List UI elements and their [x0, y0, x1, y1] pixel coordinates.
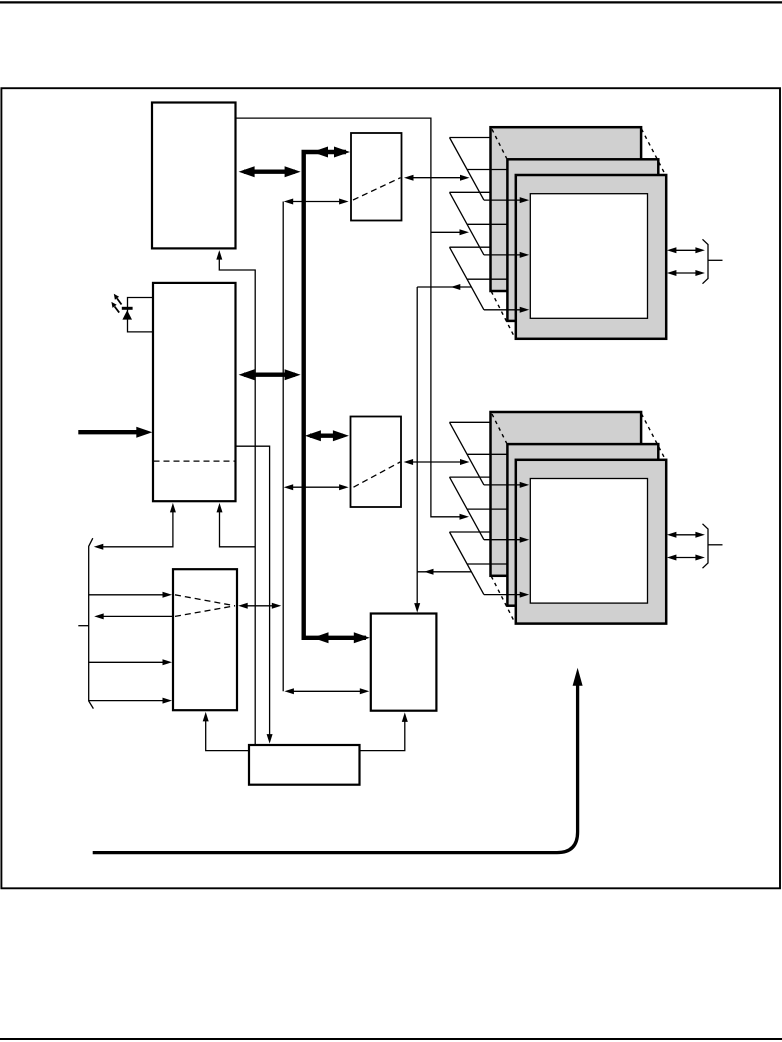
stack2 group plane 3 mid line [467, 563, 508, 565]
stack2 group plane 3 arrow into pad [484, 594, 525, 596]
wire branch arrow to stack1 slant2 [431, 231, 460, 233]
port stack 2 dashed edge bottom-left [491, 576, 514, 622]
port stack 1 dashed edge top-right [642, 129, 665, 173]
stack2 group plane 2 mid line [467, 508, 508, 510]
stack2 group plane 2 top edge [450, 476, 491, 478]
dashed select line in M3 upper [175, 595, 235, 606]
stack2 group plane 1 arrow into pad [484, 484, 525, 486]
stack1 group plane 3 arrow into pad [484, 309, 525, 311]
stack1 group plane 2 arrow into pad [484, 254, 525, 256]
stack1 pad bidir arrow 1 [670, 249, 701, 251]
block B2 main [153, 283, 236, 501]
pin wire out of M3 [98, 615, 173, 617]
stack2 group plane 2 slant edge [450, 477, 484, 540]
stack1 group plane 3 slant edge [450, 247, 484, 310]
wire B5 branch to B2 [220, 507, 256, 547]
curved flow arrow [93, 684, 578, 853]
wire stack1 slant3 output [417, 286, 471, 288]
thick bidir arrow B2-bus [244, 373, 295, 377]
stack2 group plane 3 top edge [450, 531, 491, 533]
port stack 1 dashed edge bottom-left [491, 292, 514, 338]
stack1 group plane 2 mid line [467, 223, 508, 225]
bus bottom elbow arrowhead left [313, 632, 329, 643]
LED emission arrow 2 [115, 307, 120, 313]
port stack 1 middle plane [507, 159, 658, 321]
thick bidir arrow B1-bus [244, 169, 295, 173]
wire B5 to B4 [360, 717, 405, 751]
stack1 bracket tick [708, 259, 723, 261]
block B4 peripheral [371, 614, 437, 711]
left pin bundle bracket [89, 538, 94, 708]
port stack 2 front plane [516, 460, 666, 624]
dashed divider in B2 [154, 460, 236, 462]
port stack 2 back plane [491, 412, 642, 576]
internal bus [304, 152, 366, 638]
pin wire into M3 c [89, 700, 168, 702]
stack1 group plane 1 arrow into pad [484, 199, 525, 201]
LED cathode bar [122, 307, 133, 310]
stack1 group plane 2 top edge [450, 191, 491, 193]
stack2 bracket tick [708, 544, 723, 546]
port stack 2 dashed edge top-right [642, 414, 665, 458]
bidir wire M1-stack1 [407, 177, 466, 179]
block M3 input selector [173, 569, 237, 710]
port stack 1 back plane [491, 127, 642, 291]
arrowhead into stack2 slant2 [460, 514, 470, 520]
dashed select line in M3 lower [175, 606, 235, 617]
bidir wire C-B4 [288, 690, 366, 692]
stack2 pad bidir arrow 1 [670, 534, 701, 536]
stack1 group plane 1 top edge [450, 137, 491, 139]
bottom rule [0, 1038, 782, 1040]
stack2 group plane 1 top edge [450, 421, 491, 423]
LED triangle [122, 310, 132, 319]
LED loop wire [128, 298, 154, 332]
bidir wire M2-stack2 [407, 461, 467, 463]
thick input arrow into B2 [78, 430, 139, 434]
wire B5 to M3 [206, 716, 249, 751]
stack2 group plane 2 arrow into pad [484, 539, 525, 541]
stack1 group plane 3 top edge [450, 246, 491, 248]
wire B5 to B1 [219, 254, 255, 746]
stack1 group plane 1 slant edge [450, 138, 484, 201]
wire B2 to B5 [236, 446, 270, 734]
port stack 2 dashed edge top-left [492, 414, 507, 443]
thick bidir arrow bus-M2 [310, 434, 343, 438]
pin wire into M3 a [89, 594, 168, 596]
port stack 1 dashed edge top-left [492, 129, 507, 158]
stack2 group plane 1 mid line [467, 453, 508, 455]
stack1 pin bundle bracket [703, 239, 709, 283]
wire B1 to selector verticals [236, 118, 460, 517]
wire C vertical [282, 202, 284, 692]
dashed select line in M1 [353, 178, 401, 200]
block M1 mux upper [351, 133, 402, 221]
stack1 group plane 1 mid line [467, 169, 508, 171]
stack2 pin bundle bracket [703, 524, 709, 568]
port stack 2 inner pad area [530, 479, 647, 604]
block B5 control register [249, 745, 360, 785]
wire bracket to B2 [98, 507, 173, 547]
stack1 group plane 3 mid line [467, 278, 508, 280]
port stack 2 middle plane [507, 444, 658, 606]
wire stack2 slant3 output [417, 571, 471, 573]
LED emission arrow 1 [117, 298, 122, 304]
block B1 top-left [152, 103, 236, 249]
block M2 mux middle [351, 417, 402, 508]
stack2 group plane 1 slant edge [450, 422, 484, 485]
stack2 group plane 3 slant edge [450, 532, 484, 595]
port stack 1 inner pad area [530, 194, 647, 319]
stack2 pad bidir arrow 2 [670, 557, 701, 559]
bidir wire C-M2 [287, 486, 345, 488]
left bracket tick [78, 625, 88, 627]
bidir wire M3-C [241, 605, 278, 607]
top rule [0, 1, 782, 3]
stack1 pad bidir arrow 2 [670, 272, 701, 274]
bus top elbow arrowhead right [334, 147, 350, 158]
pin wire into M3 b [89, 661, 168, 663]
dashed select line in M2 [354, 462, 401, 487]
figure frame [1, 88, 780, 888]
bidir wire C-M1 [287, 201, 345, 203]
bus bottom elbow arrowhead right [354, 632, 370, 643]
bus top elbow arrowhead left [312, 147, 328, 158]
port stack 1 front plane [516, 175, 666, 339]
stack1 group plane 2 slant edge [450, 192, 484, 255]
wire vertical into B4 [416, 287, 418, 608]
